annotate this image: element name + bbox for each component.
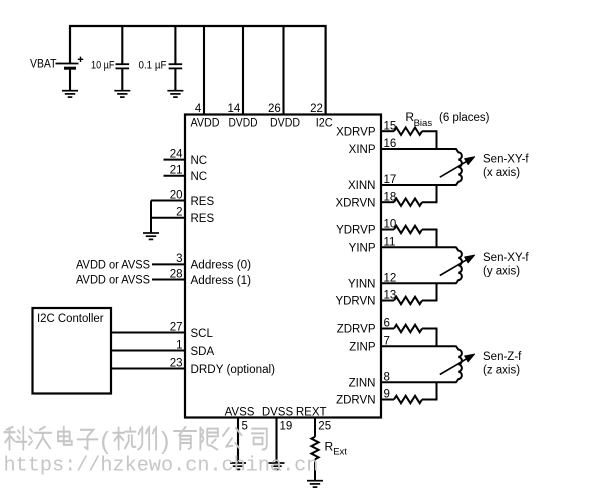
svg-text:(y axis): (y axis) [483,265,520,277]
pin 28 stub wire [152,279,186,281]
wire XDRVP to junction [422,131,437,149]
wire XDRVN stub [380,201,394,203]
svg-text:20: 20 [170,189,183,201]
svg-text:19: 19 [280,420,293,432]
ground (DVSS) [269,463,285,469]
wire YDRVP stub [380,229,394,231]
arrow (variable inductor (y axis)) [440,255,475,275]
svg-text:AVSS: AVSS [225,406,255,418]
svg-text:2: 2 [176,207,182,219]
wire XINN [380,184,457,186]
svg-text:10 µF: 10 µF [91,60,115,72]
svg-text:RES: RES [191,213,215,225]
wire 0.1uF cap to bus [174,25,176,64]
svg-text:DVSS: DVSS [262,406,294,418]
svg-text:SCL: SCL [191,328,214,340]
svg-text:3: 3 [176,253,182,265]
svg-text:NC: NC [191,171,208,183]
I2C controller box [33,308,112,394]
wire ZDRVP to junction [422,329,437,347]
wire SDA [111,350,185,352]
inductor Sen-XY-f (y axis) [456,247,462,283]
svg-text:26: 26 [268,103,281,115]
wire DVDD pin 26 drop [282,25,284,115]
pin 23 stub wire [111,368,186,370]
svg-text:AVDD: AVDD [191,118,220,130]
svg-text:Address (0): Address (0) [191,260,252,272]
wire RES pins tie-down [150,201,152,234]
svg-text:R: R [325,440,334,454]
svg-text:28: 28 [170,268,183,280]
wire ZINN [380,381,457,383]
svg-text:5: 5 [242,420,248,432]
label Sen-Z-f (z axis) [483,351,522,376]
inductor Sen-Z-f (z axis) [456,346,462,382]
svg-text:(z axis): (z axis) [483,364,520,376]
svg-text:YDRVP: YDRVP [336,225,376,237]
svg-text:VBAT: VBAT [30,59,57,71]
capacitor C1 10uF [116,64,130,68]
pin 27 stub wire [111,332,186,334]
pin 3 stub wire [152,263,186,265]
resistor R_Bias (ZDRVN) [394,396,422,403]
label Sen-XY-f (x axis) [483,154,529,179]
label R_Bias (6 places) [405,110,489,129]
svg-text:21: 21 [170,165,183,177]
svg-text:DVDD: DVDD [229,118,258,130]
resistor R_Bias (YDRVN) [394,297,422,304]
wire DRDY [111,368,185,370]
wire R_Ext to ground [314,459,316,480]
wire VBAT power bus (top rail with I2C drop) [70,26,326,115]
battery VBAT [56,57,84,69]
wire YINN [380,282,457,284]
svg-text:25: 25 [318,420,331,432]
pin 1 stub wire [111,350,186,352]
resistor R_Bias (ZDRVP) [394,325,422,332]
wire DVDD pin 14 drop [242,25,244,115]
svg-text:Sen-XY-f: Sen-XY-f [483,154,529,166]
svg-text:ZDRVN: ZDRVN [336,395,375,407]
svg-text:REXT: REXT [296,406,327,418]
svg-text:I2C: I2C [316,118,333,130]
svg-text:DVDD: DVDD [270,118,300,130]
svg-text:YDRVN: YDRVN [335,296,375,308]
ground (C1) [114,91,130,97]
svg-text:(6 places): (6 places) [439,112,490,124]
ground (R_Ext) [307,481,323,487]
svg-text:ZDRVP: ZDRVP [337,324,376,336]
svg-text:XINN: XINN [348,180,375,192]
svg-text:I2C Contoller: I2C Contoller [37,313,104,325]
label R_Ext [325,440,348,458]
pin 24 stub wire [164,159,187,161]
arrow (variable inductor (z axis)) [440,354,475,374]
svg-text:Sen-Z-f: Sen-Z-f [483,351,522,363]
op-amp U1 gyroscope IC body [185,115,381,418]
svg-text:14: 14 [228,103,241,115]
wire XDRVN to junction [422,185,437,202]
svg-text:YINP: YINP [349,243,376,255]
svg-text:ZINP: ZINP [349,342,376,354]
wire ZDRVP stub [380,328,394,330]
inductor Sen-XY-f (x axis) [456,149,462,185]
wire ZINP [380,345,457,347]
label Sen-XY-f (y axis) [483,252,529,277]
pin 20 stub wire [151,200,186,202]
svg-text:XDRVN: XDRVN [335,197,375,209]
svg-text:DRDY (optional): DRDY (optional) [191,364,276,376]
wire SCL [111,332,185,334]
wire DVSS to ground [275,418,277,464]
svg-text:4: 4 [195,103,202,115]
wire C2 to ground [174,68,176,90]
svg-text:(: ( [101,427,110,455]
svg-text:https://hzkewo.cn.china.cn: https://hzkewo.cn.china.cn [4,455,319,478]
pin 21 stub wire [164,175,187,177]
wire YDRVN to junction [422,283,437,300]
wire 10uF cap to bus [121,25,123,64]
wire AVDD pin 4 drop [203,25,205,115]
wire AVSS to ground [237,418,239,464]
capacitor C2 0.1uF [169,64,183,68]
wire REXT down [314,418,316,437]
svg-text:RES: RES [191,196,215,208]
ground (AVSS) [230,463,246,469]
wire ZDRVN to junction [422,382,437,399]
wire YDRVN stub [380,300,394,302]
svg-text:Sen-XY-f: Sen-XY-f [483,252,529,264]
svg-text:): ) [161,427,169,455]
pin 2 stub wire [151,217,186,219]
ground (RES) [143,233,159,239]
wire YDRVP to junction [422,230,437,248]
resistor R_Ext [311,437,318,460]
svg-text:0.1 µF: 0.1 µF [139,60,167,72]
ground (C2) [167,91,183,97]
svg-text:AVDD or AVSS: AVDD or AVSS [76,275,150,287]
wire YINP [380,246,457,248]
svg-text:(x axis): (x axis) [483,167,520,179]
svg-text:Bias: Bias [414,118,433,129]
wire battery to ground [69,68,71,91]
resistor R_Bias (YDRVP) [394,226,422,233]
ground (VBAT battery) [62,91,78,97]
svg-text:XINP: XINP [349,144,376,156]
resistor R_Bias (XDRVN) [394,199,422,206]
wire XDRVP stub [380,130,394,132]
svg-text:XDRVP: XDRVP [336,126,376,138]
arrow (variable inductor (x axis)) [440,157,475,177]
svg-text:Address (1): Address (1) [191,275,252,287]
svg-text:24: 24 [170,148,183,160]
svg-text:22: 22 [310,103,323,115]
svg-text:YINN: YINN [348,279,375,291]
resistor R_Bias (XDRVP) [394,127,422,134]
svg-text:Ext: Ext [333,447,347,458]
svg-text:SDA: SDA [191,346,215,358]
watermark company name [4,427,267,450]
svg-text:AVDD or AVSS: AVDD or AVSS [76,260,150,272]
wire ZDRVN stub [380,399,394,401]
wire XINP [380,148,457,150]
wire C1 to ground [121,68,123,90]
svg-text:ZINN: ZINN [349,378,376,390]
svg-text:NC: NC [191,155,208,167]
